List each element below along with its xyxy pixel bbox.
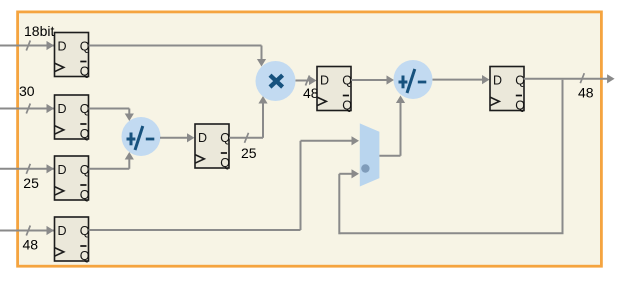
svg-text:Q: Q bbox=[80, 40, 90, 54]
register FF7 (output register): D/Q flip-flop bbox=[490, 67, 525, 113]
wire FF6.Q to multiplier bottom input (25-bit) bbox=[229, 96, 268, 143]
wire mux output to add/sub A2 bottom input bbox=[379, 96, 405, 156]
wire add/sub A1 output to register FF6 bbox=[160, 133, 195, 142]
svg-text:Q: Q bbox=[80, 65, 90, 79]
wire add/sub A2 output to register FF7 bbox=[433, 75, 490, 84]
svg-text:Q: Q bbox=[515, 99, 525, 113]
svg-text:30: 30 bbox=[19, 83, 35, 99]
wire output feedback to mux input 2 bbox=[339, 80, 563, 235]
svg-text:48: 48 bbox=[23, 237, 39, 253]
svg-text:D: D bbox=[58, 102, 67, 116]
svg-text:Q: Q bbox=[80, 224, 90, 238]
svg-text:D: D bbox=[198, 131, 207, 145]
wire FF7.Q to DSP output (48-bit) bbox=[524, 73, 615, 83]
register FF5 (multiplier pipeline register): D/Q flip-flop bbox=[317, 67, 352, 113]
multiplier M1 circle bbox=[256, 61, 296, 101]
svg-text:D: D bbox=[58, 40, 67, 54]
register FF2 (30-bit input register): D/Q flip-flop bbox=[55, 95, 90, 141]
svg-text:18bit: 18bit bbox=[24, 23, 54, 39]
wire input D (48-bit) into register FF4 bbox=[0, 226, 54, 236]
svg-text:D: D bbox=[493, 74, 502, 88]
add/sub A1 +/- symbol bbox=[127, 126, 155, 150]
svg-text:48: 48 bbox=[578, 85, 594, 101]
multiplier M1 x symbol bbox=[270, 75, 283, 87]
add/sub A2 +/- symbol bbox=[399, 69, 427, 93]
wire multiplier output to register FF5 (48-bit) bbox=[296, 76, 317, 86]
mux (feedback select) trapezoid bbox=[360, 123, 380, 186]
svg-text:D: D bbox=[320, 74, 329, 88]
wire input B (30-bit) into register FF2 bbox=[0, 104, 54, 114]
wire FF2.Q to add/sub A1 top input bbox=[89, 109, 134, 122]
svg-text:Q: Q bbox=[80, 188, 90, 202]
register FF1 (18-bit input register): D/Q flip-flop bbox=[55, 33, 90, 79]
mux select dot bbox=[361, 164, 369, 172]
svg-text:D: D bbox=[58, 224, 67, 238]
svg-text:Q: Q bbox=[80, 127, 90, 141]
svg-text:Q: Q bbox=[80, 249, 90, 263]
svg-text:Q: Q bbox=[342, 99, 352, 113]
wire input C (25-bit) into register FF3 bbox=[0, 164, 54, 174]
wire input A (18-bit) into register FF1 bbox=[0, 41, 54, 51]
register FF4 (48-bit input register): D/Q flip-flop bbox=[55, 217, 90, 263]
wire FF5.Q to add/sub A2 input bbox=[351, 75, 394, 84]
svg-text:Q: Q bbox=[80, 102, 90, 116]
svg-text:Q: Q bbox=[80, 163, 90, 177]
svg-text:Q: Q bbox=[515, 74, 525, 88]
svg-text:D: D bbox=[58, 163, 67, 177]
add/sub unit A2 (ALU) circle bbox=[394, 60, 433, 99]
svg-text:Q: Q bbox=[342, 74, 352, 88]
add/sub unit A1 (pre-adder) circle bbox=[122, 117, 161, 156]
register FF6 (pre-adder pipeline register): D/Q flip-flop bbox=[195, 124, 230, 170]
svg-text:25: 25 bbox=[241, 145, 257, 161]
wire FF4.Q to mux input 1 (48-bit) bbox=[89, 136, 360, 230]
svg-text:Q: Q bbox=[220, 131, 230, 145]
register FF3 (25-bit input register): D/Q flip-flop bbox=[55, 156, 90, 202]
svg-text:25: 25 bbox=[23, 175, 39, 191]
wire FF3.Q to add/sub A1 bottom input bbox=[89, 152, 134, 169]
svg-text:Q: Q bbox=[220, 156, 230, 170]
wire FF1.Q to multiplier top input bbox=[89, 46, 267, 67]
